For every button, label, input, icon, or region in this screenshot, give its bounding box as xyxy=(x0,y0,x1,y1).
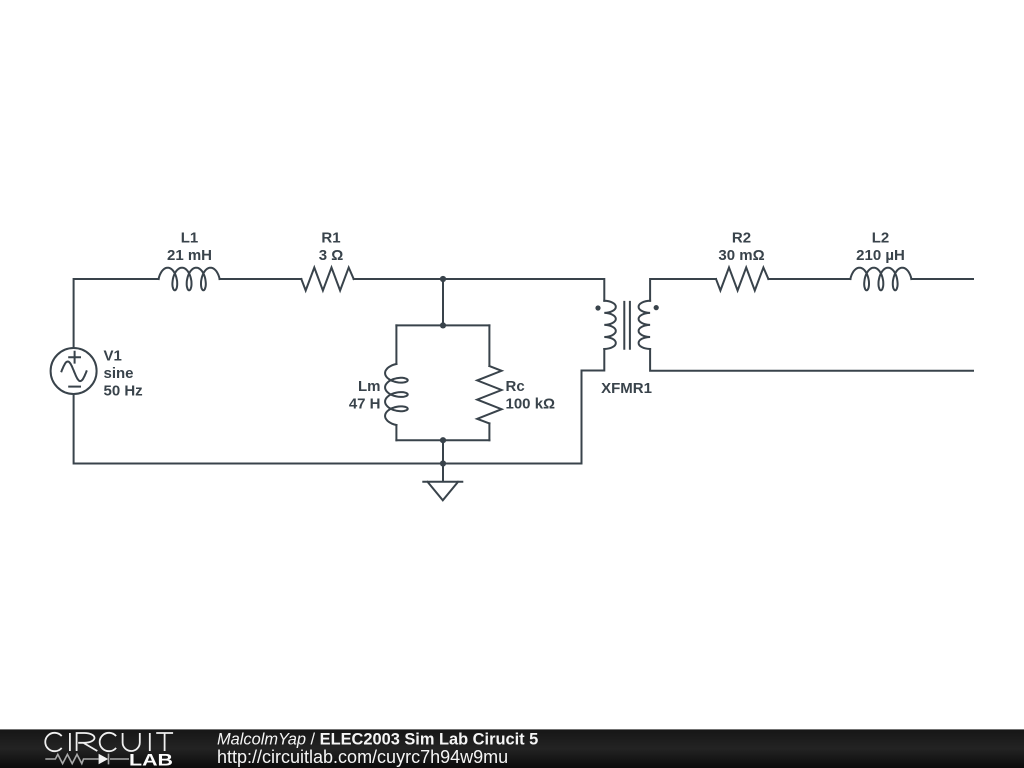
svg-text:30 mΩ: 30 mΩ xyxy=(718,247,764,264)
svg-text:L2: L2 xyxy=(872,230,890,247)
logo letter T xyxy=(156,733,173,751)
svg-text:210 µH: 210 µH xyxy=(856,247,905,264)
parallel bottom bar xyxy=(396,439,489,441)
resistor R2 xyxy=(716,268,768,291)
logo letter U xyxy=(123,733,140,751)
node dot parallel top xyxy=(440,322,446,328)
transformer secondary top lead xyxy=(650,279,973,301)
logo letter C xyxy=(45,733,61,751)
resistor Rc xyxy=(477,366,501,423)
logo diode triangle xyxy=(99,754,109,764)
phase dot primary xyxy=(595,305,600,310)
inductor L1 xyxy=(159,268,220,291)
transformer primary winding xyxy=(604,301,616,349)
svg-text:R1: R1 xyxy=(321,230,340,247)
V1 sine xyxy=(62,362,87,382)
svg-text:L1: L1 xyxy=(181,230,199,247)
svg-text:XFMR1: XFMR1 xyxy=(601,380,652,397)
transformer primary bottom lead xyxy=(582,349,605,464)
Lm branch leads xyxy=(395,325,397,440)
Rc branch leads xyxy=(488,325,490,440)
node dot parallel bottom xyxy=(440,437,446,443)
svg-text:LAB: LAB xyxy=(129,750,173,768)
svg-text:MalcolmYap / ELEC2003 Sim Lab: MalcolmYap / ELEC2003 Sim Lab Cirucit 5 xyxy=(217,730,538,748)
node dot top xyxy=(440,276,446,282)
svg-text:Rc: Rc xyxy=(506,378,525,395)
svg-text:sine: sine xyxy=(104,365,134,382)
voltage source V1 xyxy=(51,348,97,394)
resistor R1 xyxy=(301,268,353,291)
wire V1 bottom xyxy=(74,394,582,464)
svg-text:100 kΩ: 100 kΩ xyxy=(506,396,556,413)
transformer secondary bottom lead xyxy=(650,349,973,371)
transformer core xyxy=(624,302,630,349)
svg-text:50 Hz: 50 Hz xyxy=(104,382,143,399)
logo letter C2 xyxy=(100,733,116,751)
svg-text:Lm: Lm xyxy=(358,378,381,395)
svg-text:47 H: 47 H xyxy=(349,396,381,413)
wire R1 to transformer xyxy=(354,279,605,301)
wire junction vertical xyxy=(442,279,444,325)
wire top-left vertical xyxy=(74,279,159,348)
inductor Lm xyxy=(385,364,408,425)
svg-text:R2: R2 xyxy=(732,230,751,247)
logo letter I xyxy=(69,733,71,751)
svg-text:http://circuitlab.com/cuyrc7h9: http://circuitlab.com/cuyrc7h94w9mu xyxy=(217,747,508,767)
svg-text:V1: V1 xyxy=(104,347,122,364)
svg-text:21 mH: 21 mH xyxy=(167,247,212,264)
wire L1 to R1 xyxy=(220,278,302,280)
parallel top bar xyxy=(396,324,489,326)
V1 minus xyxy=(69,386,80,388)
phase dot secondary xyxy=(654,305,659,310)
ground xyxy=(423,464,462,501)
transformer secondary winding xyxy=(639,301,651,349)
node dot bottom wire xyxy=(440,460,446,466)
logo resistor-diode xyxy=(45,754,129,765)
inductor L2 xyxy=(850,268,911,291)
logo letter R xyxy=(77,733,98,751)
logo letter I2 xyxy=(149,733,151,751)
svg-text:3 Ω: 3 Ω xyxy=(319,247,344,264)
wire bottom node vertical xyxy=(442,440,444,463)
V1 plus xyxy=(69,352,80,363)
